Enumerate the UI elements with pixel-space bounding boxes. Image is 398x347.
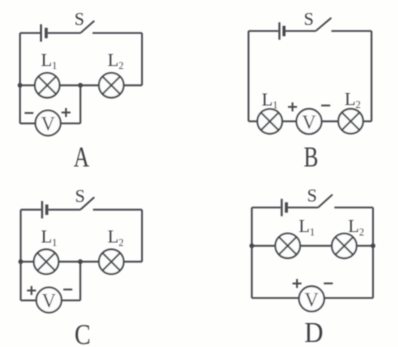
wire: C battery to switch: [48, 209, 80, 211]
battery (circuit D): [282, 199, 287, 216]
wire: B bottom right: [364, 120, 372, 122]
svg-text:D: D: [304, 317, 323, 347]
svg-text:S: S: [74, 9, 84, 29]
svg-text:A: A: [74, 142, 90, 173]
wire: C voltmeter branch riser: [79, 262, 81, 301]
wire: B between L1 and V: [283, 120, 297, 122]
wire: C right vertical: [141, 210, 143, 262]
wire: C left vertical: [20, 210, 22, 301]
voltmeter V (circuit A): [35, 110, 60, 135]
switch S (circuit A): [81, 21, 95, 33]
battery (circuit A): [41, 24, 46, 41]
svg-text:L1: L1: [41, 50, 57, 72]
wire: B bottom left: [249, 120, 257, 122]
wire: C top-left segment: [21, 209, 41, 211]
wire: D top-left segment: [252, 207, 281, 209]
voltmeter V (circuit B): [296, 109, 321, 134]
wire: C middle right: [124, 261, 142, 263]
battery (circuit C): [42, 201, 47, 218]
switch S (circuit D): [318, 195, 332, 208]
svg-text:V: V: [302, 112, 316, 133]
wire: D top-right segment: [334, 207, 373, 209]
wire: A battery to switch: [48, 32, 81, 34]
wire: B right vertical: [371, 31, 373, 121]
switch S (circuit C): [80, 197, 94, 210]
svg-text:L1: L1: [41, 227, 57, 249]
svg-text:V: V: [305, 290, 319, 311]
svg-text:V: V: [41, 114, 55, 135]
wire: A top-left segment: [20, 32, 40, 34]
wire: C voltmeter branch bottom-right: [62, 299, 80, 301]
polarity plus (circuit C): [27, 286, 36, 295]
wire: C middle left: [21, 261, 34, 263]
wire: D battery to switch: [288, 207, 318, 209]
polarity plus (circuit D): [293, 279, 302, 288]
voltmeter V (circuit C): [36, 287, 61, 312]
lamp L2 (circuit A): [99, 73, 124, 98]
polarity plus (circuit B): [288, 102, 297, 111]
lamp L1 (circuit C): [34, 249, 59, 274]
junction dot C left: [18, 259, 23, 264]
svg-text:S: S: [307, 185, 317, 205]
svg-text:V: V: [42, 291, 56, 312]
polarity minus (circuit D): [324, 282, 333, 284]
junction dot D right: [371, 243, 376, 248]
wire: B between V and L2: [322, 120, 338, 122]
svg-text:L2: L2: [348, 216, 364, 238]
junction dot C middle: [78, 259, 83, 264]
lamp L2 (circuit C): [99, 249, 124, 274]
wire: D middle right: [357, 245, 373, 247]
battery (circuit B): [279, 22, 284, 39]
svg-text:L2: L2: [108, 50, 124, 72]
wire: A middle left: [20, 84, 34, 86]
wire: B battery to switch: [286, 30, 316, 32]
wire: D middle left: [252, 245, 275, 247]
wire: A voltmeter branch bottom-right: [61, 122, 80, 124]
svg-text:L2: L2: [345, 89, 361, 111]
polarity minus (circuit C): [63, 289, 72, 291]
wire: C voltmeter branch bottom-left: [21, 299, 36, 301]
junction dot A middle: [78, 83, 83, 88]
lamp L1 (circuit B): [257, 109, 282, 134]
svg-text:L1: L1: [262, 90, 278, 112]
voltmeter V (circuit D): [299, 286, 324, 311]
lamp L2 (circuit B): [338, 109, 363, 134]
wire: D between L1 and L2: [301, 245, 332, 247]
wire: B top-right segment: [331, 30, 371, 32]
wire: B top-left segment: [249, 30, 279, 32]
svg-text:S: S: [304, 9, 314, 29]
lamp L1 (circuit D): [275, 233, 300, 258]
lamp L1 (circuit A): [35, 73, 60, 98]
svg-text:C: C: [75, 320, 91, 347]
wire: D left vertical: [251, 208, 253, 299]
wire: A middle right: [124, 84, 142, 86]
wire: D bottom left: [252, 297, 299, 299]
wire: A left vertical: [19, 33, 21, 123]
polarity minus (circuit B): [321, 105, 330, 107]
wire: B left vertical: [248, 31, 250, 121]
wire: C between L1 and L2: [59, 261, 99, 263]
wire: A voltmeter branch riser: [79, 85, 81, 123]
svg-text:S: S: [75, 186, 85, 206]
svg-text:L2: L2: [108, 227, 124, 249]
svg-text:B: B: [304, 142, 319, 173]
svg-text:L1: L1: [299, 216, 315, 238]
wire: A top-right segment: [93, 32, 143, 34]
wire: D right vertical: [372, 208, 374, 299]
wire: C top-right segment: [93, 209, 142, 211]
wire: A voltmeter branch bottom-left: [20, 122, 35, 124]
junction dot A left: [18, 83, 23, 88]
switch S (circuit B): [316, 18, 332, 31]
lamp L2 (circuit D): [332, 234, 357, 259]
junction dot D left: [249, 243, 254, 248]
wire: D bottom right: [324, 297, 373, 299]
polarity plus (circuit A): [62, 108, 71, 117]
wire: A between L1 and L2: [60, 84, 99, 86]
wire: A right vertical: [141, 33, 143, 85]
polarity minus (circuit A): [25, 112, 34, 114]
